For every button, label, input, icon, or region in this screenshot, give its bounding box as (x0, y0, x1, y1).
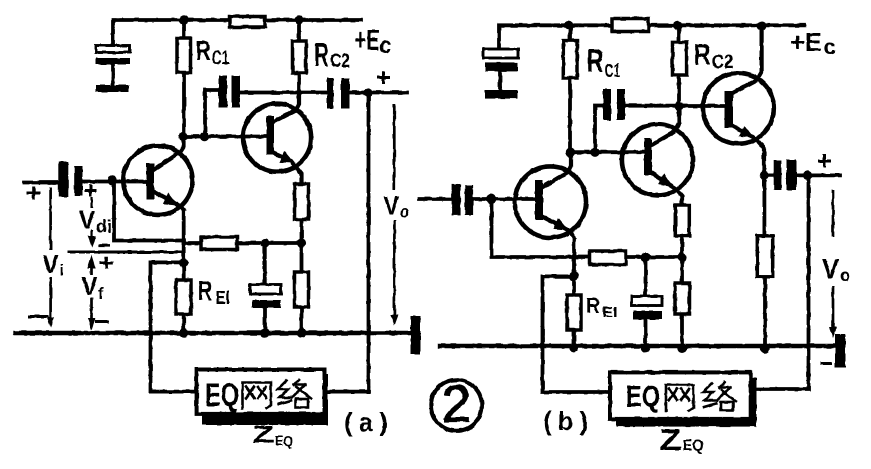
svg-text:EQ: EQ (683, 437, 704, 455)
svg-text:Z: Z (252, 421, 275, 448)
svg-text:V: V (79, 206, 95, 235)
svg-text:o: o (400, 202, 409, 221)
svg-text:f: f (98, 284, 104, 303)
svg-text:EQ: EQ (626, 378, 660, 413)
svg-text:Z: Z (659, 424, 682, 457)
svg-text:V: V (383, 192, 399, 221)
svg-text:i: i (60, 261, 65, 280)
svg-text:(b): (b) (543, 406, 594, 436)
svg-text:2: 2 (442, 376, 471, 434)
svg-text:di: di (96, 217, 112, 237)
svg-text:+E: +E (355, 24, 380, 57)
svg-text:R: R (196, 36, 211, 67)
svg-text:EI: EI (216, 288, 231, 309)
svg-text:R: R (587, 43, 604, 80)
svg-text:+E: +E (790, 29, 822, 57)
svg-text:R: R (586, 294, 600, 318)
svg-text:C2: C2 (330, 50, 350, 72)
svg-text:V: V (81, 272, 97, 301)
svg-text:c: c (824, 35, 836, 59)
svg-text:C1: C1 (212, 47, 230, 69)
svg-text:R: R (314, 36, 329, 73)
svg-text:o: o (840, 265, 850, 285)
svg-text:R: R (198, 276, 213, 307)
svg-text:EQ: EQ (205, 378, 239, 413)
svg-text:C2: C2 (712, 51, 734, 72)
svg-text:c: c (380, 32, 391, 59)
svg-text:EI: EI (602, 305, 618, 321)
svg-text:(a): (a) (344, 407, 394, 437)
svg-text:R: R (694, 38, 711, 71)
svg-text:V: V (43, 250, 59, 279)
svg-text:EQ: EQ (275, 433, 293, 449)
svg-text:V: V (822, 253, 839, 284)
svg-text:C1: C1 (605, 60, 621, 81)
